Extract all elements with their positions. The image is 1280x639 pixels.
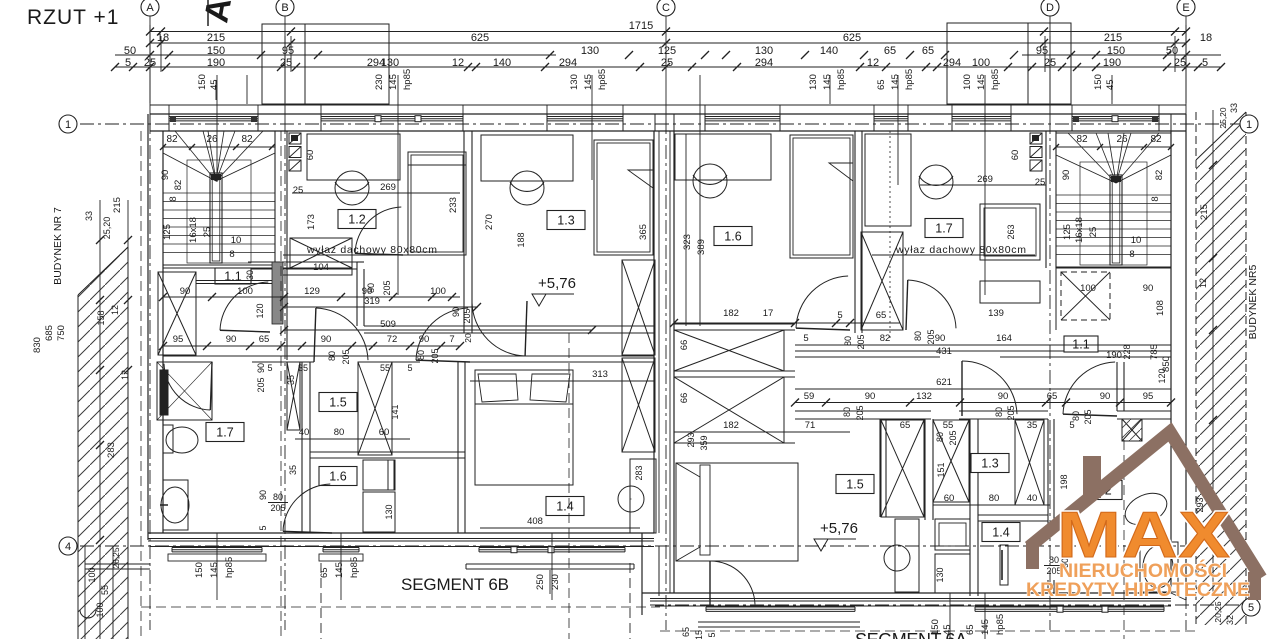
- svg-text:80: 80: [366, 283, 376, 293]
- svg-text:270: 270: [484, 214, 495, 230]
- svg-text:139: 139: [988, 308, 1004, 319]
- svg-text:25: 25: [1174, 57, 1186, 69]
- svg-text:8: 8: [1150, 196, 1161, 201]
- svg-text:1.4: 1.4: [992, 526, 1009, 540]
- svg-text:120: 120: [255, 303, 265, 318]
- svg-text:5: 5: [267, 363, 272, 373]
- svg-text:hp85: hp85: [904, 69, 915, 90]
- svg-text:90: 90: [258, 490, 268, 500]
- svg-text:140: 140: [820, 45, 838, 57]
- svg-text:141: 141: [390, 404, 400, 419]
- svg-text:509: 509: [380, 319, 396, 330]
- svg-text:205: 205: [1083, 409, 1093, 424]
- svg-text:132: 132: [916, 391, 932, 402]
- svg-text:1.5: 1.5: [846, 478, 863, 492]
- svg-text:A: A: [146, 2, 154, 14]
- svg-text:90: 90: [226, 334, 237, 345]
- svg-text:182: 182: [723, 420, 739, 431]
- svg-text:1.7: 1.7: [935, 222, 952, 236]
- svg-text:32: 32: [1225, 615, 1235, 625]
- svg-text:25: 25: [661, 57, 673, 69]
- svg-text:151: 151: [936, 462, 946, 477]
- svg-text:95: 95: [173, 334, 184, 345]
- svg-text:5: 5: [1248, 602, 1254, 614]
- svg-text:25: 25: [1035, 177, 1046, 188]
- svg-text:55: 55: [380, 363, 390, 373]
- svg-text:150: 150: [1107, 45, 1125, 57]
- svg-text:750: 750: [56, 325, 67, 341]
- svg-text:130: 130: [581, 45, 599, 57]
- svg-text:205: 205: [948, 430, 958, 445]
- svg-text:205: 205: [270, 503, 285, 513]
- svg-text:RZUT +1: RZUT +1: [27, 6, 119, 29]
- svg-text:150: 150: [1093, 74, 1104, 90]
- svg-text:313: 313: [592, 369, 608, 380]
- svg-text:65: 65: [259, 334, 270, 345]
- svg-text:1.1: 1.1: [1072, 338, 1089, 352]
- svg-text:80: 80: [273, 492, 283, 502]
- svg-text:1.3: 1.3: [981, 457, 998, 471]
- svg-text:108: 108: [1155, 300, 1166, 316]
- svg-text:1715: 1715: [629, 20, 653, 32]
- svg-text:8: 8: [229, 249, 234, 260]
- svg-text:850: 850: [1161, 356, 1172, 372]
- svg-text:65: 65: [884, 45, 896, 57]
- svg-text:158: 158: [96, 310, 106, 325]
- svg-text:431: 431: [936, 346, 952, 357]
- svg-text:190: 190: [1103, 57, 1121, 69]
- svg-text:60: 60: [944, 493, 955, 504]
- svg-text:215: 215: [1104, 32, 1122, 44]
- svg-text:25: 25: [1088, 227, 1099, 238]
- svg-text:130: 130: [384, 504, 394, 519]
- svg-text:150: 150: [194, 562, 205, 578]
- svg-text:8: 8: [168, 196, 179, 201]
- svg-text:145: 145: [980, 619, 991, 635]
- svg-text:80: 80: [416, 350, 426, 360]
- svg-text:KREDYTY HIPOTECZNE: KREDYTY HIPOTECZNE: [1026, 579, 1250, 601]
- svg-text:12: 12: [120, 370, 130, 380]
- svg-text:1.6: 1.6: [724, 230, 741, 244]
- svg-text:100: 100: [87, 567, 97, 582]
- svg-text:16x18: 16x18: [188, 217, 199, 243]
- svg-text:205: 205: [341, 349, 351, 364]
- svg-text:150: 150: [207, 45, 225, 57]
- svg-text:145: 145: [209, 562, 220, 578]
- svg-text:65: 65: [965, 624, 976, 635]
- svg-text:80: 80: [327, 351, 337, 361]
- svg-text:80: 80: [989, 493, 1000, 504]
- svg-text:625: 625: [843, 32, 861, 44]
- svg-text:82: 82: [880, 333, 891, 344]
- svg-text:16x18: 16x18: [1074, 217, 1085, 243]
- svg-text:hp85: hp85: [836, 69, 847, 90]
- svg-text:205: 205: [462, 308, 472, 323]
- svg-text:294: 294: [559, 57, 577, 69]
- svg-text:7: 7: [449, 334, 454, 345]
- svg-text:5: 5: [1069, 420, 1074, 431]
- svg-text:65: 65: [876, 310, 887, 321]
- svg-text:389: 389: [696, 239, 707, 255]
- svg-text:294: 294: [943, 57, 961, 69]
- svg-text:182: 182: [723, 308, 739, 319]
- svg-text:5: 5: [258, 525, 268, 530]
- svg-text:10: 10: [231, 235, 242, 246]
- svg-text:12: 12: [110, 305, 120, 315]
- svg-text:wyłaz dachowy 80x80cm: wyłaz dachowy 80x80cm: [895, 244, 1026, 256]
- svg-text:90: 90: [1061, 170, 1072, 181]
- svg-text:BUDYNEK NR 7: BUDYNEK NR 7: [52, 207, 64, 285]
- svg-text:1.2: 1.2: [348, 213, 365, 227]
- svg-text:125: 125: [658, 45, 676, 57]
- svg-text:215: 215: [207, 32, 225, 44]
- svg-text:150: 150: [930, 619, 941, 635]
- svg-text:130: 130: [381, 57, 399, 69]
- svg-text:205: 205: [1006, 405, 1016, 420]
- svg-text:hp85: hp85: [402, 69, 413, 90]
- svg-text:294: 294: [755, 57, 773, 69]
- svg-text:hp85: hp85: [995, 614, 1006, 635]
- svg-text:164: 164: [996, 333, 1012, 344]
- svg-text:80: 80: [913, 331, 923, 341]
- svg-text:40: 40: [1027, 493, 1038, 504]
- svg-text:130: 130: [808, 74, 819, 90]
- svg-text:59: 59: [804, 391, 815, 402]
- svg-text:365: 365: [638, 224, 649, 240]
- svg-text:hp85: hp85: [349, 557, 360, 578]
- svg-text:80: 80: [334, 427, 345, 438]
- svg-text:35: 35: [286, 375, 296, 385]
- svg-text:90: 90: [321, 334, 332, 345]
- svg-text:82: 82: [241, 134, 253, 145]
- svg-text:30: 30: [245, 270, 255, 280]
- svg-text:125: 125: [162, 224, 173, 240]
- svg-text:+5,76: +5,76: [538, 275, 576, 292]
- svg-text:BUDYNEK NR5: BUDYNEK NR5: [1247, 264, 1259, 339]
- svg-text:65: 65: [900, 420, 911, 431]
- svg-text:1.3: 1.3: [557, 214, 574, 228]
- svg-text:1.6: 1.6: [329, 470, 346, 484]
- svg-text:190: 190: [1106, 350, 1122, 361]
- svg-text:8: 8: [1129, 249, 1134, 260]
- svg-text:26: 26: [1116, 134, 1128, 145]
- svg-text:4: 4: [65, 541, 71, 553]
- svg-text:10: 10: [1131, 235, 1142, 246]
- svg-text:145: 145: [388, 74, 399, 90]
- svg-text:71: 71: [805, 420, 816, 431]
- svg-text:205: 205: [926, 329, 936, 344]
- svg-text:55: 55: [100, 585, 110, 595]
- svg-text:5: 5: [407, 363, 412, 373]
- svg-text:100: 100: [237, 286, 253, 297]
- svg-text:33: 33: [1229, 103, 1239, 113]
- svg-text:145: 145: [890, 74, 901, 90]
- svg-text:130: 130: [569, 74, 580, 90]
- svg-text:205: 205: [382, 280, 392, 295]
- svg-text:129: 129: [304, 286, 320, 297]
- svg-text:1.7: 1.7: [216, 426, 233, 440]
- svg-text:95: 95: [1036, 45, 1048, 57]
- svg-text:90: 90: [180, 286, 191, 297]
- svg-text:785: 785: [1149, 344, 1160, 360]
- svg-text:269: 269: [380, 182, 396, 193]
- svg-text:E: E: [1182, 2, 1189, 14]
- svg-text:65: 65: [876, 79, 887, 90]
- svg-text:20,25: 20,25: [1213, 601, 1223, 623]
- svg-text:5: 5: [803, 333, 808, 344]
- svg-text:35: 35: [288, 465, 298, 475]
- svg-text:12: 12: [452, 57, 464, 69]
- svg-text:90: 90: [935, 333, 946, 344]
- svg-text:1.5: 1.5: [329, 396, 346, 410]
- svg-text:188: 188: [516, 232, 526, 247]
- svg-text:205: 205: [256, 377, 266, 392]
- svg-text:80: 80: [843, 336, 853, 346]
- svg-text:125: 125: [1062, 224, 1073, 240]
- svg-text:90: 90: [865, 391, 876, 402]
- svg-text:5: 5: [707, 632, 717, 637]
- svg-text:90: 90: [998, 391, 1009, 402]
- svg-text:100: 100: [972, 57, 990, 69]
- svg-text:45: 45: [1105, 79, 1116, 90]
- svg-text:228: 228: [1122, 344, 1132, 359]
- svg-text:173: 173: [306, 214, 317, 230]
- svg-text:65: 65: [922, 45, 934, 57]
- svg-text:90: 90: [256, 363, 266, 373]
- svg-text:685: 685: [44, 325, 55, 341]
- svg-text:104: 104: [313, 262, 329, 273]
- svg-text:283: 283: [106, 442, 117, 458]
- svg-text:hp85: hp85: [597, 69, 608, 90]
- svg-text:190: 190: [207, 57, 225, 69]
- svg-text:26: 26: [206, 134, 218, 145]
- svg-text:150: 150: [197, 74, 208, 90]
- svg-text:45: 45: [942, 624, 953, 635]
- svg-text:60: 60: [1010, 150, 1021, 161]
- svg-text:621: 621: [936, 377, 952, 388]
- svg-text:90: 90: [160, 170, 171, 181]
- svg-text:25: 25: [293, 185, 304, 196]
- svg-text:1: 1: [65, 119, 71, 131]
- svg-text:66: 66: [679, 340, 690, 351]
- svg-text:80: 80: [842, 407, 852, 417]
- svg-text:40: 40: [299, 427, 310, 438]
- svg-text:82: 82: [173, 180, 184, 191]
- svg-text:283: 283: [634, 465, 644, 480]
- svg-text:SEGMENT 6B: SEGMENT 6B: [401, 575, 509, 594]
- svg-text:215: 215: [1199, 204, 1210, 220]
- svg-text:408: 408: [527, 516, 543, 527]
- svg-text:35: 35: [1027, 420, 1038, 431]
- svg-text:130: 130: [935, 567, 945, 582]
- svg-text:D: D: [1046, 2, 1054, 14]
- svg-text:25: 25: [202, 227, 213, 238]
- svg-text:830: 830: [32, 337, 43, 353]
- svg-text:205: 205: [855, 405, 865, 420]
- svg-text:82: 82: [1154, 170, 1165, 181]
- svg-text:hp85: hp85: [224, 557, 235, 578]
- svg-text:B: B: [281, 2, 288, 14]
- svg-text:+5,76: +5,76: [820, 520, 858, 537]
- svg-text:145: 145: [334, 562, 345, 578]
- svg-text:12: 12: [867, 57, 879, 69]
- svg-text:319: 319: [364, 296, 380, 307]
- svg-text:45: 45: [209, 79, 220, 90]
- svg-text:25,20: 25,20: [1218, 107, 1228, 129]
- svg-text:60: 60: [379, 427, 390, 438]
- svg-text:198: 198: [1059, 474, 1069, 489]
- svg-text:625: 625: [471, 32, 489, 44]
- svg-text:100: 100: [1080, 283, 1096, 294]
- svg-text:80: 80: [994, 407, 1004, 417]
- svg-text:140: 140: [493, 57, 511, 69]
- svg-text:1.4: 1.4: [556, 500, 573, 514]
- svg-text:230: 230: [374, 74, 385, 90]
- svg-text:18: 18: [1200, 32, 1212, 44]
- svg-text:35: 35: [298, 363, 308, 373]
- svg-text:82: 82: [1150, 134, 1162, 145]
- svg-text:65: 65: [681, 627, 691, 637]
- svg-text:82: 82: [1076, 134, 1088, 145]
- svg-text:250: 250: [535, 574, 546, 590]
- svg-text:33: 33: [84, 211, 94, 221]
- svg-text:66: 66: [679, 393, 690, 404]
- svg-text:82: 82: [166, 134, 178, 145]
- svg-text:100: 100: [430, 286, 446, 297]
- svg-text:233: 233: [448, 197, 459, 213]
- svg-text:C: C: [662, 2, 670, 14]
- svg-text:205: 205: [856, 334, 866, 349]
- svg-text:95: 95: [1143, 391, 1154, 402]
- svg-text:323: 323: [682, 234, 693, 250]
- svg-text:26,25: 26,25: [111, 547, 121, 569]
- svg-text:55: 55: [943, 420, 954, 431]
- svg-text:100: 100: [962, 74, 973, 90]
- svg-text:12: 12: [1198, 278, 1208, 288]
- svg-text:269: 269: [977, 174, 993, 185]
- svg-text:1.1: 1.1: [224, 270, 241, 284]
- svg-text:1: 1: [1246, 119, 1252, 131]
- svg-text:130: 130: [755, 45, 773, 57]
- svg-text:215: 215: [112, 197, 123, 213]
- svg-text:hp85: hp85: [990, 69, 1001, 90]
- svg-text:20: 20: [463, 333, 473, 343]
- svg-text:263: 263: [1006, 224, 1016, 239]
- svg-text:17: 17: [763, 308, 774, 319]
- svg-text:145: 145: [822, 74, 833, 90]
- svg-text:72: 72: [387, 334, 398, 345]
- svg-text:90: 90: [1100, 391, 1111, 402]
- svg-text:90: 90: [1143, 283, 1154, 294]
